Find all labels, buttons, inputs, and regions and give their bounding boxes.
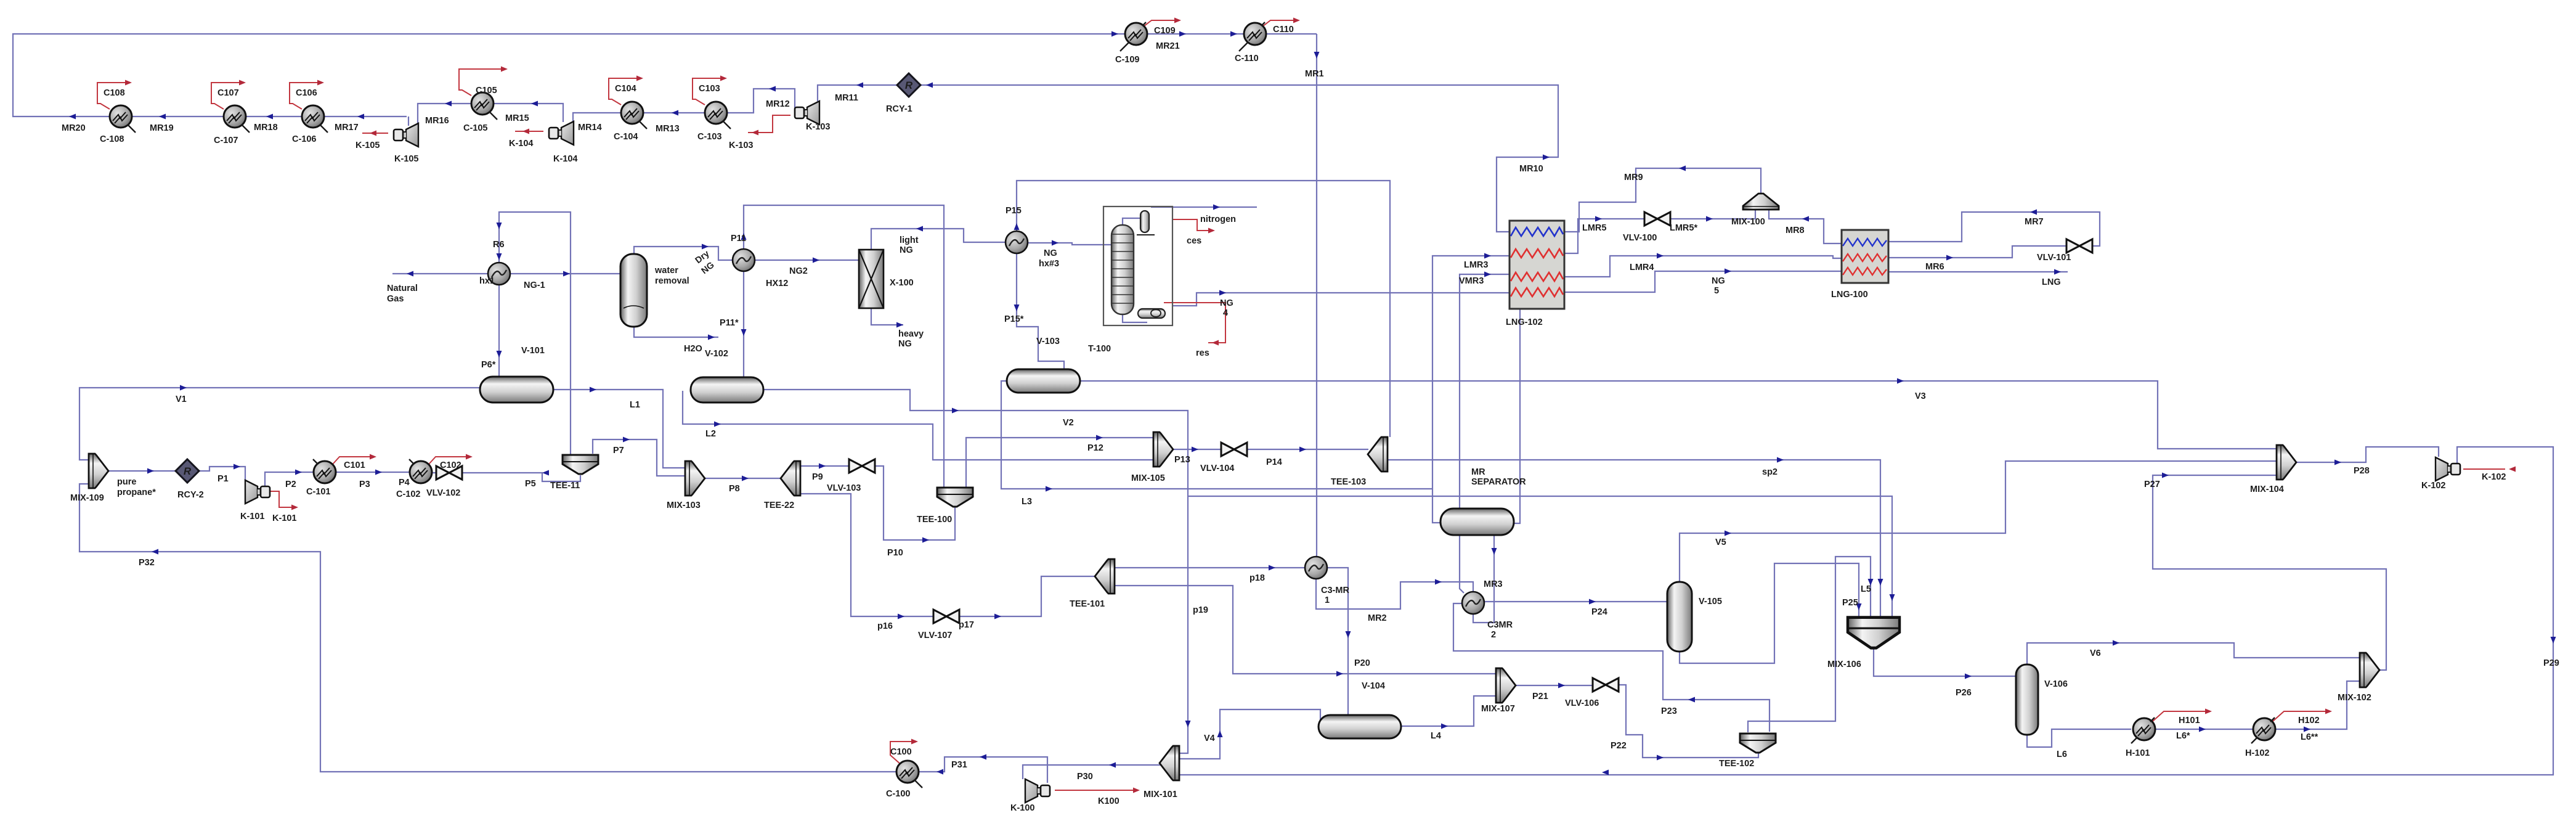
wire Dry NG column top to HX12 — [634, 247, 733, 260]
arrow VMR3 — [1484, 272, 1491, 277]
wire heavy NG X-100 bottom — [871, 308, 903, 325]
energy C103 — [693, 78, 723, 105]
svg-text:K100: K100 — [1098, 796, 1119, 806]
svg-text:res: res — [1196, 348, 1209, 358]
heat exchanger hx#3 — [1006, 231, 1028, 253]
arrow nitrogen — [1213, 205, 1220, 210]
svg-text:LNG-102: LNG-102 — [1506, 317, 1543, 327]
svg-text:MIX-103: MIX-103 — [667, 501, 701, 510]
wire V3 V-103 to MIX-104 — [1080, 381, 2278, 449]
svg-text:P24: P24 — [1591, 607, 1607, 617]
svg-text:H2O: H2O — [684, 344, 702, 354]
wire P12 TEE-100 to MIX-105 — [966, 438, 1153, 488]
svg-text:MR8: MR8 — [1786, 226, 1805, 235]
svg-text:C-103: C-103 — [697, 132, 722, 142]
arrow into C-100 — [937, 769, 943, 775]
svg-text:MIX-106: MIX-106 — [1827, 660, 1861, 669]
wire MR7 VLV-101 back to LNG-100 — [1888, 212, 2100, 246]
svg-text:p16: p16 — [877, 621, 893, 631]
compressor K-101 — [245, 480, 270, 504]
svg-text:removal: removal — [655, 276, 689, 286]
wire L4 V-104 to MIX-107 — [1401, 696, 1497, 726]
svg-text:TEE-11: TEE-11 — [550, 481, 580, 491]
arrow MR1 down — [1314, 52, 1320, 59]
svg-text:V-106: V-106 — [2044, 679, 2068, 689]
svg-text:NG: NG — [1712, 276, 1725, 286]
wire P15* hx#3 to V-103 — [1017, 254, 1064, 369]
svg-text:H101: H101 — [2179, 716, 2200, 726]
wire P15 TEE-103 to hx#3 — [1017, 181, 1390, 437]
svg-text:C-109: C-109 — [1115, 55, 1140, 65]
valve VLV-101 — [2066, 239, 2092, 253]
svg-text:Natural: Natural — [387, 284, 418, 293]
arrow Natural Gas — [407, 271, 413, 277]
svg-text:C106: C106 — [296, 88, 317, 98]
wire P9 TEE-22 to VLV-103 — [800, 465, 850, 467]
wire MR2 C3-MR 1 to C3MR-2 — [1316, 579, 1473, 609]
svg-text:P32: P32 — [139, 558, 155, 568]
heat exchanger C3MR 2 — [1462, 592, 1484, 614]
svg-text:P7: P7 — [613, 446, 624, 456]
svg-text:H-101: H-101 — [2126, 748, 2150, 758]
cooler C-101 — [313, 459, 336, 483]
wire LMR3 riser MR separator to LNG-102 — [1432, 256, 1509, 523]
arrow P2 — [295, 470, 302, 475]
svg-text:C100: C100 — [890, 747, 912, 757]
svg-text:P13: P13 — [1174, 455, 1190, 465]
arrow P20 down — [1346, 631, 1351, 638]
svg-text:P29: P29 — [2543, 658, 2559, 668]
mixer MIX-105 — [1153, 432, 1173, 467]
valve VLV-106 — [1593, 678, 1619, 692]
tee TEE-11 — [563, 455, 598, 474]
svg-text:VLV-101: VLV-101 — [2037, 253, 2071, 263]
svg-text:NG: NG — [900, 245, 913, 255]
wire MIX-102 outlet to P27 — [2153, 475, 2386, 670]
svg-text:V-102: V-102 — [705, 349, 728, 359]
arrow pure propane — [147, 468, 154, 474]
arrow LMR4 — [1657, 253, 1664, 259]
energy C104 — [609, 78, 640, 105]
svg-text:MR: MR — [1471, 467, 1485, 477]
svg-text:LMR3: LMR3 — [1464, 260, 1488, 270]
arrow MR13 — [672, 110, 678, 116]
energy C105 — [459, 69, 504, 96]
svg-text:P11*: P11* — [720, 318, 739, 328]
svg-text:RCY-2: RCY-2 — [177, 490, 204, 500]
svg-text:R6: R6 — [493, 240, 505, 250]
wire P27 to MIX-104 — [1188, 496, 1892, 621]
svg-text:C102: C102 — [440, 460, 461, 470]
separator V-105 — [1667, 582, 1692, 652]
arrow P13 — [1192, 447, 1198, 452]
arrow MR9 — [1679, 166, 1686, 171]
arrow L1 — [590, 387, 596, 393]
arrow P8 — [742, 476, 749, 481]
wire P20 C3-MR 1 to V-104 — [1327, 568, 1348, 715]
svg-text:X-100: X-100 — [890, 278, 914, 288]
wire MR17 K-105 outlet stub — [408, 117, 409, 126]
svg-text:L6**: L6** — [2301, 732, 2318, 742]
svg-text:C3-MR: C3-MR — [1321, 586, 1349, 595]
wire MR20 top recycle loop — [13, 34, 1317, 117]
wire L6 V-106 to H-101 — [2027, 729, 2131, 747]
arrow V2 drop — [1185, 721, 1191, 727]
svg-text:P2: P2 — [285, 480, 296, 489]
svg-text:TEE-102: TEE-102 — [1719, 759, 1754, 769]
wire P23 TEE-102 to C3MR-2 — [1453, 603, 1769, 732]
wire P8 MIX-103 to TEE-22 — [705, 478, 780, 479]
svg-text:P5: P5 — [525, 479, 536, 489]
cooler C-109 — [1120, 22, 1147, 51]
cooler C-107 — [224, 105, 250, 133]
arrow V1 — [180, 385, 187, 391]
wire p16 TEE-22 to VLV-107 — [800, 494, 934, 616]
svg-text:K-100: K-100 — [1010, 803, 1035, 813]
valve VLV-107 — [933, 610, 959, 623]
wire MR1 vertical from C-110 to C3-MR 1 — [1316, 34, 1317, 557]
arrow p17 — [994, 614, 1001, 619]
svg-text:C101: C101 — [344, 460, 365, 470]
svg-text:VLV-102: VLV-102 — [426, 488, 460, 498]
wire L6** H-102 to MIX-102 — [2275, 681, 2362, 729]
svg-text:C-110: C-110 — [1235, 54, 1259, 63]
energy C107 — [211, 83, 242, 109]
svg-text:C3MR: C3MR — [1487, 620, 1513, 630]
wire P3 C-101 to C-102 — [336, 472, 410, 473]
arrow MR2 — [1435, 579, 1442, 585]
arrow V4 up — [1217, 730, 1223, 737]
wire P31 K-100 to C-100 — [919, 757, 1047, 783]
svg-text:P15: P15 — [1006, 206, 1022, 216]
cooler C-102 — [409, 459, 432, 483]
arrow P5 into TEE-11 — [542, 470, 549, 476]
svg-text:NG2: NG2 — [789, 266, 808, 276]
recycle RCY-2 — [176, 459, 199, 483]
svg-text:C-102: C-102 — [396, 489, 421, 499]
wire L2 V-102 to MIX-105 — [683, 391, 1153, 460]
arrow MR7 — [2030, 210, 2037, 215]
wire R6 TEE-11 to hx1 — [499, 212, 571, 454]
energy K-103 — [748, 115, 790, 133]
arrow MR16 — [445, 101, 452, 107]
arrow P22 — [1657, 755, 1664, 761]
arrow P11 up — [741, 233, 747, 240]
wire P32 C-100 to MIX-109 — [79, 484, 896, 772]
wire P4 C-102 to VLV-102 — [432, 472, 437, 473]
wire NG hx#3 to T-100 — [1028, 243, 1111, 245]
wire MR13 C-103 to C-104 — [643, 112, 705, 113]
arrow P15* down — [1014, 305, 1020, 311]
cooler C-104 — [621, 102, 647, 129]
arrow P28 — [2334, 460, 2341, 465]
energy C106 — [290, 83, 320, 109]
valve VLV-102 — [436, 466, 462, 480]
svg-text:LMR5*: LMR5* — [1670, 223, 1697, 233]
arrow NG to T-100 — [1052, 240, 1058, 246]
wire LMR5 LNG-102 to VLV-100 — [1564, 219, 1645, 253]
svg-text:P23: P23 — [1661, 706, 1677, 716]
heat exchanger hx1 — [488, 263, 510, 285]
svg-text:MR9: MR9 — [1624, 173, 1643, 182]
arrow P24 — [1589, 599, 1596, 605]
svg-text:C-100: C-100 — [886, 789, 911, 799]
arrow P3 — [375, 470, 382, 475]
arrow P10 — [922, 538, 929, 543]
svg-text:MR10: MR10 — [1519, 164, 1543, 174]
svg-text:K-101: K-101 — [240, 512, 265, 521]
wire P22 VLV-106 to TEE-102 — [1617, 685, 1758, 758]
arrow P26 — [1965, 674, 1972, 679]
wire L6* H-101 to H-102 — [2155, 729, 2253, 730]
svg-text:ces: ces — [1187, 236, 1201, 246]
wire light NG X-100 to hx#3 — [871, 229, 1005, 250]
valve VLV-104 — [1221, 443, 1247, 456]
svg-text:MR14: MR14 — [578, 123, 602, 133]
svg-text:T-100: T-100 — [1088, 344, 1111, 354]
svg-text:TEE-22: TEE-22 — [764, 501, 794, 510]
svg-text:nitrogen: nitrogen — [1200, 215, 1236, 224]
wire T-100 reboiler loop — [1123, 314, 1147, 322]
svg-text:P12: P12 — [1087, 443, 1103, 453]
svg-text:H102: H102 — [2298, 716, 2320, 726]
arrow L5 down — [1868, 579, 1874, 586]
arrow LMR3 — [1484, 253, 1491, 259]
wire MR10 LNG-102 to RCY-1 — [920, 85, 1558, 232]
arrow P30 — [1109, 762, 1116, 768]
wire P25 V-105 bottoms to MIX-106 — [1680, 563, 1859, 663]
wire L1 V-101 to MIX-103 — [553, 390, 686, 468]
mixer MIX-104 — [2277, 445, 2296, 480]
mixer MIX-103 — [685, 461, 705, 496]
mixer MIX-107 — [1496, 668, 1516, 703]
svg-text:water: water — [654, 266, 678, 276]
svg-text:H-102: H-102 — [2245, 748, 2270, 758]
wire V6 V-106 to MIX-102 — [2027, 643, 2362, 664]
svg-text:MR20: MR20 — [62, 123, 86, 133]
wire P13 MIX-105 to VLV-104 — [1174, 449, 1222, 450]
wire MR14 C-104 to K-104 — [573, 113, 621, 122]
svg-text:p17: p17 — [959, 620, 974, 630]
wire P26 MIX-106 to V-106 — [1874, 647, 2016, 676]
wire L5 to MIX-106 — [1748, 557, 1871, 732]
svg-text:C109: C109 — [1154, 26, 1176, 36]
mixer MIX-100 — [1743, 194, 1779, 210]
svg-text:L1: L1 — [630, 400, 640, 410]
arrow P23 — [1688, 697, 1695, 703]
svg-text:V-103: V-103 — [1036, 337, 1060, 346]
arrow LNG — [2054, 269, 2061, 275]
wire nitrogen product — [1151, 206, 1257, 208]
svg-text:hx#3: hx#3 — [1039, 259, 1059, 269]
svg-text:hx1: hx1 — [479, 276, 495, 286]
arrow L3 — [1046, 486, 1052, 492]
svg-text:V-105: V-105 — [1699, 597, 1722, 607]
wire MR15 K-104 outlet to C-105 — [494, 104, 563, 122]
svg-text:C-105: C-105 — [463, 123, 488, 133]
arrow P7 — [623, 437, 630, 443]
arrow sp2 — [1777, 457, 1784, 463]
water removal column — [620, 254, 647, 327]
heat exchanger H-101 — [2131, 717, 2155, 743]
arrow P15 up — [1014, 223, 1020, 230]
svg-text:MR13: MR13 — [656, 124, 680, 134]
wire V2 V-102 down to MIX-101 — [763, 390, 1188, 753]
arrow NG5 — [1725, 269, 1731, 274]
arrow V5 — [1725, 531, 1731, 536]
wire V4 V-104 to MIX-101 — [1178, 709, 1330, 759]
svg-text:light: light — [900, 235, 919, 245]
arrow L2 — [714, 422, 721, 427]
svg-text:NG: NG — [898, 339, 912, 349]
wire NG-1 hx1 to water removal — [510, 273, 620, 274]
arrow before C-110 — [1230, 31, 1237, 37]
separator V-104 — [1318, 715, 1401, 738]
arrow MR19 — [159, 114, 166, 120]
arrow LMR5* — [1706, 216, 1713, 222]
svg-text:TEE-100: TEE-100 — [917, 515, 952, 525]
arrow H2O — [708, 335, 715, 340]
arrow Dry NG — [702, 244, 709, 250]
svg-text:V5: V5 — [1715, 538, 1726, 547]
svg-text:MR2: MR2 — [1368, 613, 1387, 623]
wire MR8 LNG-100 to MIX-100 — [1769, 210, 1842, 243]
arrow p19 — [1336, 671, 1343, 677]
svg-text:sp2: sp2 — [1762, 467, 1778, 477]
wire P21 MIX-107 to VLV-106 — [1516, 685, 1594, 686]
wire NG2 HX12 to X-100 — [754, 260, 859, 261]
arrow P31 — [980, 754, 986, 760]
arrow MR8 — [1802, 216, 1809, 222]
mixer MIX-106 — [1848, 618, 1899, 648]
wire P11* HX12 to V-102 — [743, 271, 744, 377]
svg-text:LNG-100: LNG-100 — [1831, 290, 1868, 300]
wire P2 K-101 to C-101 — [265, 472, 314, 486]
svg-text:MR12: MR12 — [766, 99, 790, 109]
energy K-102 — [2463, 468, 2505, 470]
wire P28 MIX-104 to K-102 — [2296, 447, 2439, 462]
compressor K-104 — [549, 121, 574, 145]
svg-text:MR6: MR6 — [1925, 262, 1944, 272]
arrow P29 down — [2551, 637, 2556, 644]
wire V1 V-101 to MIX-109 — [79, 388, 480, 460]
svg-text:MR15: MR15 — [505, 113, 529, 123]
arrow p18 — [1269, 565, 1275, 571]
svg-text:Gas: Gas — [387, 294, 404, 304]
cooler C-100 — [896, 761, 922, 788]
arrow P1 — [234, 464, 240, 470]
energy ces nitrogen condenser — [1172, 219, 1211, 231]
svg-text:P22: P22 — [1611, 741, 1627, 751]
svg-text:LNG: LNG — [2042, 277, 2061, 287]
arrow MR6 — [1946, 255, 1953, 261]
svg-text:NG: NG — [1044, 248, 1057, 258]
LNG exchanger LNG-102 — [1509, 221, 1564, 309]
tee TEE-102 — [1740, 734, 1776, 753]
wire pure propane* MIX-109 to RCY-2 — [108, 470, 176, 472]
energy H102 — [2273, 711, 2328, 721]
svg-text:C110: C110 — [1273, 25, 1294, 35]
energy K-101 — [270, 491, 295, 507]
wire VMR3 stub C3MR-2 to LNG-102 — [1460, 274, 1509, 593]
arrow P6* — [497, 351, 502, 358]
svg-text:L6*: L6* — [2176, 731, 2190, 741]
svg-text:P4: P4 — [399, 478, 410, 488]
tee TEE-100 — [937, 488, 973, 507]
svg-text:K-103: K-103 — [806, 122, 831, 132]
separator V-103 — [1007, 369, 1080, 393]
svg-text:K-105: K-105 — [394, 154, 419, 164]
valve VLV-100 — [1644, 212, 1670, 226]
svg-text:K-105: K-105 — [356, 141, 380, 150]
svg-text:C-101: C-101 — [306, 487, 331, 497]
svg-text:heavy: heavy — [898, 329, 924, 339]
svg-text:K-104: K-104 — [553, 154, 578, 164]
arrow into RCY-1 — [926, 83, 933, 88]
arrow MR21 — [1179, 31, 1186, 37]
tee TEE-101 — [1095, 559, 1115, 594]
arrow NG4 — [1219, 290, 1226, 296]
component X-100 — [859, 250, 884, 308]
arrow MR17 — [357, 114, 364, 120]
energy C108 — [97, 83, 128, 109]
arrow V3 — [1897, 378, 1904, 384]
energy K-105 — [362, 133, 388, 134]
svg-text:C-108: C-108 — [100, 134, 124, 144]
energy C110 — [1262, 20, 1296, 27]
svg-text:VLV-100: VLV-100 — [1623, 233, 1657, 243]
svg-text:MR7: MR7 — [2025, 217, 2044, 227]
wire V5 V-105 to MIX-106 — [1680, 461, 2277, 582]
svg-text:TEE-101: TEE-101 — [1070, 599, 1105, 609]
arrow L6* — [2199, 727, 2206, 732]
wire MR3 MR separator to C3MR-2 — [1473, 535, 1494, 623]
svg-text:LMR4: LMR4 — [1630, 263, 1654, 272]
svg-text:MR19: MR19 — [150, 123, 174, 133]
svg-text:VMR3: VMR3 — [1459, 276, 1484, 286]
separator V-102 — [691, 377, 763, 403]
arrow MR11 — [856, 83, 863, 88]
arrow P21 — [1558, 683, 1565, 689]
arrow P29 west — [1602, 770, 1609, 775]
wire P1 RCY-2 to K-101 — [198, 467, 245, 481]
svg-text:L2: L2 — [705, 429, 716, 439]
mixer MIX-109 — [89, 454, 108, 488]
wire P7 TEE-11 to MIX-103 — [593, 439, 686, 476]
arrow L4 — [1441, 724, 1448, 729]
wire LMR4 LNG-102 to LNG-100 — [1564, 256, 1842, 277]
wire p18 TEE-101 to C3-MR 1 — [1110, 567, 1305, 568]
svg-text:C-104: C-104 — [614, 132, 638, 142]
svg-text:SEPARATOR: SEPARATOR — [1471, 477, 1526, 487]
column T-100 with border — [1103, 206, 1172, 325]
svg-text:P14: P14 — [1266, 457, 1282, 467]
svg-text:L3: L3 — [1022, 497, 1032, 507]
svg-text:LMR5: LMR5 — [1582, 223, 1606, 233]
cooler C-103 — [705, 102, 731, 129]
svg-text:K-104: K-104 — [509, 139, 534, 149]
compressor K-100 — [1025, 779, 1050, 803]
svg-text:V6: V6 — [2090, 648, 2101, 658]
wire MR11 RCY-1 to K-103 — [818, 85, 898, 101]
svg-text:P1: P1 — [217, 474, 229, 484]
svg-text:2: 2 — [1491, 630, 1496, 640]
svg-text:P6*: P6* — [481, 360, 496, 370]
arrow P25 down — [1856, 603, 1862, 610]
wire P24 C3MR-2 to V-105 — [1484, 601, 1667, 602]
svg-text:P3: P3 — [359, 480, 370, 489]
svg-text:L4: L4 — [1431, 731, 1441, 741]
